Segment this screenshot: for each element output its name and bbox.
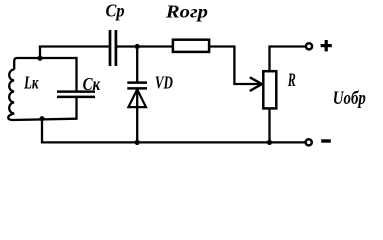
node VD bottom junction [135,140,140,145]
svg-text:Rогр: Rогр [165,1,208,21]
wire Cp to resistor Rogr [117,45,173,47]
varicap VD cathode bar [127,87,147,90]
wire vertical drop at tank top junction [39,47,41,59]
svg-text:Cp: Cp [106,1,125,21]
capacitor Ck bottom plate [57,96,95,99]
capacitor Ck top plate [57,90,95,93]
svg-text:Uобр: Uобр [333,88,366,109]
wire potentiometer R top lead to plus terminal [270,47,306,71]
wire top rail left segment (junction to Cp) [39,45,109,47]
capacitor Cp left plate [109,30,112,66]
wire drop from tank bottom junction to bottom rail [42,119,305,143]
wire arrow shaft (potentiometer wiper) [233,83,260,85]
potentiometer R wiper arrowhead [250,77,262,91]
wire tank top rail [14,58,76,70]
varicap VD capacitor bar [127,81,147,84]
wire potentiometer R bottom lead [268,110,270,143]
svg-text:Lк: Lк [23,73,39,93]
wire VD bottom lead [136,88,138,142]
node tank bottom junction [39,116,44,121]
plus sign [321,40,332,51]
terminal minus circle [306,139,312,145]
terminal plus circle [306,43,312,49]
wire Ck top lead [75,57,77,92]
varicap VD diode triangle [128,89,146,107]
node R bottom junction [267,140,272,145]
potentiometer R body [263,71,276,108]
wire resistor Rogr to corner and down [210,47,235,85]
minus sign [321,139,331,142]
svg-text:VD: VD [155,73,173,93]
svg-text:R: R [287,71,296,91]
resistor Rogr body [173,40,209,52]
capacitor Cp right plate [115,30,118,66]
node VD top junction [135,44,140,49]
node tank top junction [37,56,42,61]
inductor Lk coil arcs [8,70,76,121]
wire VD top lead [136,45,138,82]
wire Ck bottom lead [75,98,77,120]
svg-text:Cк: Cк [83,74,101,94]
